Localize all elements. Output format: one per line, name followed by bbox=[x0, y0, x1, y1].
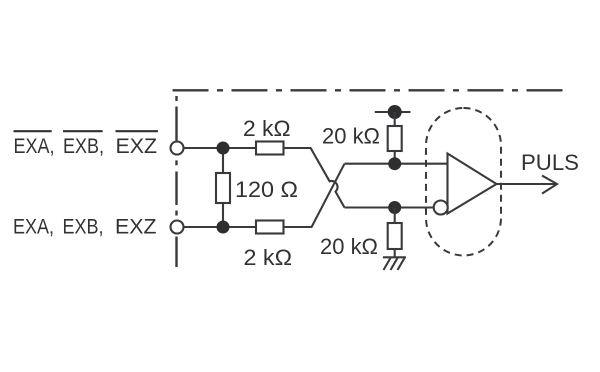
svg-text:EXZ: EXZ bbox=[116, 135, 158, 158]
junction dot top input bbox=[217, 142, 230, 155]
value label 20 kOhm (top) bbox=[322, 124, 380, 149]
label /EXA, /EXB, /EXZ with overlines bbox=[14, 131, 159, 158]
value label 2 kOhm (top) bbox=[243, 116, 291, 141]
wire rail to R4 bbox=[394, 112, 396, 126]
wire bottom input from terminal to R2 bbox=[184, 226, 257, 228]
svg-text:20 kΩ: 20 kΩ bbox=[322, 124, 380, 149]
resistor R2 2 kOhm (bottom) bbox=[256, 221, 284, 234]
label EXA, EXB, EXZ bbox=[13, 216, 157, 239]
junction dot node A bbox=[388, 157, 401, 170]
junction dot bottom input bbox=[217, 221, 230, 234]
wire top input from terminal to R1 bbox=[184, 147, 257, 149]
power rail junction dot bbox=[388, 105, 402, 119]
enclosure boundary top (dash-dot) bbox=[173, 89, 563, 91]
value label 120 Ohm bbox=[235, 177, 298, 202]
svg-text:EXA,: EXA, bbox=[13, 216, 54, 239]
ground symbol bbox=[383, 257, 406, 270]
input terminal /EX (open circle) bbox=[171, 142, 184, 155]
wire node B horizontal to receiver - input bubble bbox=[345, 206, 435, 208]
resistor R4 20 kOhm (pull-up) bbox=[388, 126, 402, 151]
svg-text:20 kΩ: 20 kΩ bbox=[320, 234, 378, 259]
svg-text:EXA,: EXA, bbox=[14, 135, 55, 158]
junction dot node B bbox=[388, 201, 401, 214]
svg-text:2 kΩ: 2 kΩ bbox=[243, 116, 291, 141]
svg-text:EXB,: EXB, bbox=[63, 135, 104, 158]
receiver amplifier triangle bbox=[448, 154, 497, 214]
value label 20 kOhm (bottom) bbox=[320, 234, 378, 259]
resistor R5 20 kOhm (pull-down) bbox=[388, 223, 402, 249]
wire R5 to ground bbox=[394, 249, 396, 257]
inverting input bubble bbox=[434, 201, 448, 215]
line receiver U1 dashed outline (stadium) bbox=[426, 108, 501, 256]
output arrowhead bbox=[542, 176, 557, 194]
svg-text:EXZ: EXZ bbox=[115, 216, 157, 239]
wire output bbox=[497, 183, 558, 185]
wire node B to R5 bbox=[394, 208, 396, 224]
svg-text:120 Ω: 120 Ω bbox=[235, 177, 298, 202]
svg-text:2 kΩ: 2 kΩ bbox=[244, 245, 293, 270]
wire top from R1 to crossover, with hop over other wire bbox=[284, 148, 345, 208]
label PULS bbox=[521, 150, 579, 175]
wire bottom from R2 to crossover (straight through) bbox=[284, 164, 345, 227]
value label 2 kOhm (bottom) bbox=[244, 245, 293, 270]
enclosure boundary left (dash-dot) bbox=[175, 96, 177, 267]
input terminal EX (open circle) bbox=[171, 221, 184, 234]
svg-text:PULS: PULS bbox=[521, 150, 579, 175]
resistor R3 120 Ohm (vertical) bbox=[216, 173, 230, 203]
power rail stub for R4 bbox=[375, 111, 411, 113]
wire node A horizontal to receiver + input bbox=[345, 163, 448, 165]
svg-text:EXB,: EXB, bbox=[63, 216, 104, 239]
wire R4 to node A bbox=[394, 151, 396, 164]
wire vertical between input junctions through R3 bbox=[222, 148, 224, 227]
resistor R1 2 kOhm (top) bbox=[256, 142, 284, 155]
